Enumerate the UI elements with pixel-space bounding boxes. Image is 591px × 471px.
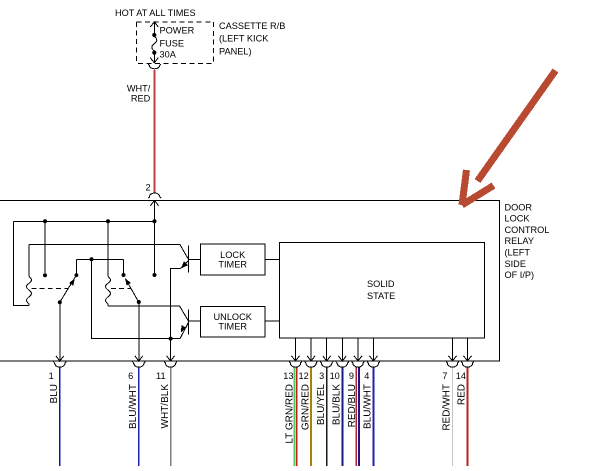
pin 10 connector <box>336 362 349 368</box>
pin 10 arrow into connector <box>338 356 346 361</box>
connector below fuse <box>148 64 161 69</box>
pin 6 connector <box>132 362 145 368</box>
wire pin 4 drop from solid state <box>372 338 374 361</box>
svg-text:CASSETTE R/B: CASSETTE R/B <box>219 21 285 31</box>
coil L2 <box>106 277 111 306</box>
pin 4 arrow into connector <box>369 356 377 361</box>
wire RED/WHT (pin 7) <box>452 368 454 466</box>
svg-text:RED: RED <box>131 93 151 103</box>
wire WHT/BLK (pin 11) <box>170 368 172 466</box>
svg-text:WHT/BLK: WHT/BLK <box>160 384 171 429</box>
svg-text:(LEFT: (LEFT <box>505 248 531 258</box>
pin 14 connector <box>461 362 474 368</box>
wire BLU/WHT (pin 6) <box>138 368 140 466</box>
svg-text:3: 3 <box>319 371 324 381</box>
pin 13 connector <box>289 362 302 368</box>
wire RED/BLU (pin 9) <box>356 368 359 466</box>
svg-text:30A: 30A <box>160 50 177 60</box>
svg-text:SOLID: SOLID <box>367 279 395 289</box>
svg-text:7: 7 <box>442 371 447 381</box>
svg-text:SIDE: SIDE <box>505 259 526 269</box>
svg-text:BLU: BLU <box>49 384 60 403</box>
pin 9 arrow into connector <box>354 356 362 361</box>
pin 14 arrow into connector <box>464 356 472 361</box>
wire BLU/WHT (pin 4) <box>372 368 374 466</box>
svg-text:TIMER: TIMER <box>218 322 247 332</box>
svg-text:6: 6 <box>128 371 133 381</box>
svg-text:STATE: STATE <box>367 291 395 301</box>
wire pin 1 drop from switch arm <box>59 302 61 361</box>
node pin2 / power bus junction <box>153 219 157 223</box>
node relay1 contact B <box>43 273 47 277</box>
wire relay1 contact A lead <box>75 259 77 273</box>
switch arm relay1 (pin 1) <box>58 277 76 304</box>
svg-text:GRN/RED: GRN/RED <box>300 384 311 430</box>
wire Q1 collector bus from coil1 top <box>29 245 188 260</box>
svg-text:1: 1 <box>49 371 54 381</box>
svg-text:10: 10 <box>330 371 340 381</box>
svg-text:13: 13 <box>283 371 293 381</box>
svg-text:(LEFT KICK: (LEFT KICK <box>219 34 269 44</box>
pin 12 arrow into connector <box>307 356 315 361</box>
pin 4 connector <box>367 362 380 368</box>
node emitter bus junction <box>169 337 173 341</box>
pin 12 connector <box>305 362 318 368</box>
svg-text:RED: RED <box>457 384 468 405</box>
mechanical link relay1 (dashed) <box>32 288 69 290</box>
svg-text:WHT/: WHT/ <box>127 83 151 93</box>
svg-text:HOT AT ALL TIMES: HOT AT ALL TIMES <box>115 8 196 18</box>
wire coil1 bottom lead (left leg to bus) <box>14 221 30 305</box>
svg-text:RED/WHT: RED/WHT <box>442 384 453 431</box>
svg-text:OF I/P): OF I/P) <box>505 270 535 280</box>
svg-text:BLU/YEL: BLU/YEL <box>316 384 327 426</box>
pin 6 arrow into connector <box>135 356 143 361</box>
wire pin 2 internal drop <box>154 200 156 273</box>
wire RED (pin 14) <box>466 368 468 466</box>
coil L2 feed from bus <box>107 221 109 276</box>
wire pin 3 drop from solid state <box>326 338 328 361</box>
svg-text:9: 9 <box>349 371 354 381</box>
svg-text:RED/BLU: RED/BLU <box>347 384 358 427</box>
svg-text:LOCK: LOCK <box>505 214 531 224</box>
svg-text:DOOR: DOOR <box>505 202 533 212</box>
svg-text:11: 11 <box>156 371 166 381</box>
node crossbar junction <box>90 257 94 261</box>
svg-text:BLU/WHT: BLU/WHT <box>363 384 374 429</box>
wire top power bus <box>14 220 155 222</box>
wire pin 9 drop from solid state <box>357 338 359 361</box>
unlock timer U2 box <box>201 306 265 337</box>
wire Q2 base to unlock timer <box>188 320 200 322</box>
pin 7 arrow into connector <box>449 356 457 361</box>
transistor Q1 (lock driver) <box>181 246 189 273</box>
wire Q1 base to lock timer <box>188 258 200 260</box>
pin 1 connector <box>53 362 66 368</box>
wire WHT/RED from fuse to relay pin 2 <box>153 70 155 193</box>
wire unlock timer to solid state <box>265 320 280 322</box>
wire pin 12 drop from solid state <box>310 338 312 361</box>
node relay1 contact A <box>75 273 79 277</box>
svg-text:LT GRN/RED: LT GRN/RED <box>285 384 296 444</box>
pin 3 arrow into connector <box>323 356 331 361</box>
wire Q2 collector diagonal <box>180 306 189 321</box>
node bus / contact-A drop junction <box>43 219 47 223</box>
pin 1 arrow into connector <box>56 356 64 361</box>
wire BLU/BLK (pin 10) <box>341 368 343 466</box>
node relay2 contact A <box>122 273 126 277</box>
wire pin 13 drop from solid state <box>295 338 297 361</box>
label SOLID STATE <box>367 279 395 301</box>
wire pin 7 drop from solid state <box>452 338 454 361</box>
pin 9 connector <box>352 362 365 368</box>
wire Q1 emitter / pin 11 drop <box>171 269 181 361</box>
fuse POWER FUSE 30A <box>150 22 158 63</box>
label UNLOCK TIMER <box>214 312 253 332</box>
label DOOR LOCK CONTROL RELAY (LEFT SIDE OF I/P) <box>505 202 550 280</box>
wire BLU/YEL (pin 3) <box>326 368 328 466</box>
lock timer U1 box <box>201 244 265 275</box>
wire coil2 bottom to Q2 collector <box>108 305 180 307</box>
wire pin 14 drop from solid state <box>467 338 469 361</box>
label WHT/RED <box>127 83 151 103</box>
wire bus drop to relay1 contact B <box>44 221 46 273</box>
pin 13 arrow into connector <box>292 356 300 361</box>
pin 3 connector <box>320 362 333 368</box>
pin 2 connector <box>148 193 161 198</box>
wire pin 10 drop from solid state <box>341 338 343 361</box>
indicator arrow (rust red) pointing at relay <box>462 71 556 206</box>
svg-text:BLU/WHT: BLU/WHT <box>128 384 139 429</box>
switch arm relay2 (pin 6) <box>125 278 141 304</box>
wire pin 6 drop from switch arm <box>138 302 140 361</box>
svg-text:TIMER: TIMER <box>218 259 247 269</box>
fuse enclosure dashed box (Cassette R/B) <box>137 22 214 64</box>
pin 11 arrow into connector <box>167 356 175 361</box>
svg-text:FUSE: FUSE <box>160 39 185 49</box>
pin 2 arrow into relay <box>151 200 159 205</box>
relay box DOOR LOCK CONTROL RELAY outline <box>0 200 499 361</box>
svg-text:PANEL): PANEL) <box>219 47 252 57</box>
svg-text:UNLOCK: UNLOCK <box>214 312 253 322</box>
svg-text:12: 12 <box>298 371 308 381</box>
svg-text:RELAY: RELAY <box>505 236 534 246</box>
wire LT GRN/RED (pin 13) <box>295 368 297 466</box>
wire BLU (pin 1) <box>59 368 61 466</box>
coil L1 <box>27 245 32 306</box>
label LOCK TIMER <box>218 250 247 270</box>
wire lock timer to solid state <box>265 259 280 261</box>
svg-text:2: 2 <box>145 183 150 193</box>
svg-text:4: 4 <box>364 371 369 381</box>
node relay2 contact B (from pin 2) <box>153 273 157 277</box>
transistor Q2 (unlock driver) <box>180 309 188 338</box>
pin 7 connector <box>446 362 459 368</box>
svg-text:BLU/BLK: BLU/BLK <box>332 384 343 425</box>
mechanical link relay2 (dashed) <box>111 288 131 290</box>
pin 11 connector <box>164 362 177 368</box>
wire relay2 contact A lead <box>123 259 125 273</box>
wire GRN/RED (pin 12) <box>310 368 312 466</box>
svg-text:POWER: POWER <box>160 26 195 36</box>
node bus / coil2 feed junction <box>106 219 110 223</box>
wire contact crossbar (to pin 11 net) <box>76 259 180 338</box>
label CASSETTE R/B (LEFT KICK PANEL) <box>219 21 285 57</box>
label POWER FUSE 30A <box>160 26 195 60</box>
solid state module box <box>280 242 485 338</box>
svg-text:14: 14 <box>456 371 466 381</box>
svg-text:CONTROL: CONTROL <box>505 225 550 235</box>
svg-text:LOCK: LOCK <box>220 250 246 260</box>
